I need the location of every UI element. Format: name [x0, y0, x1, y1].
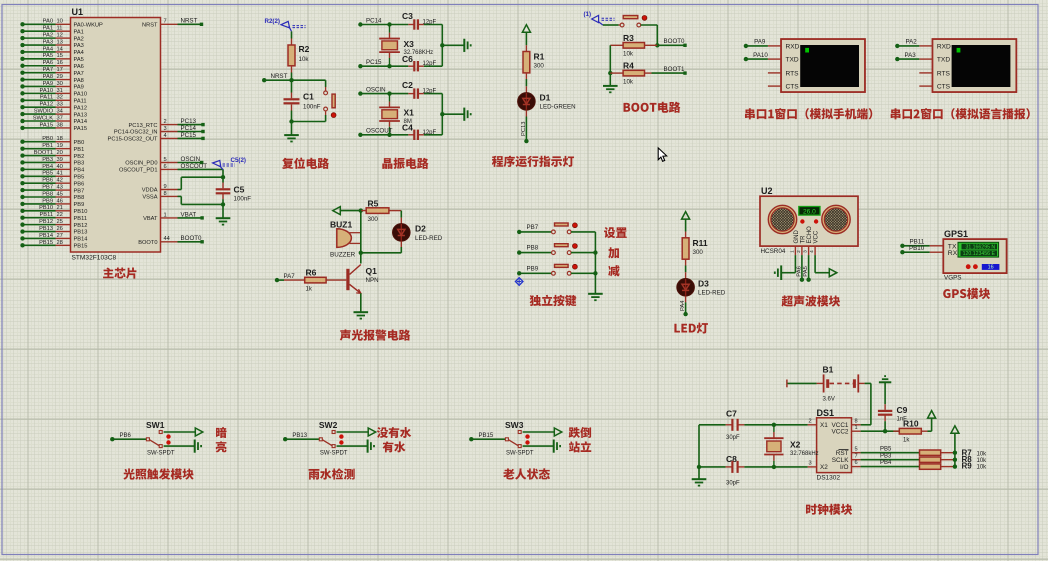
svg-text:PA2: PA2: [906, 39, 918, 46]
capacitor C4 12pF: [402, 123, 437, 141]
svg-text:VGPS: VGPS: [944, 275, 962, 282]
U2 pins: [789, 246, 815, 255]
svg-text:RXD: RXD: [786, 43, 800, 50]
virtual terminal body: [110, 39, 1030, 515]
wire button to BOOT0 node: [641, 25, 660, 48]
svg-text:16: 16: [988, 265, 994, 271]
svg-text:PB15: PB15: [74, 244, 88, 250]
svg-text:RST: RST: [836, 450, 849, 457]
label set: [604, 227, 627, 238]
svg-text:C4: C4: [402, 123, 413, 133]
svg-text:LED-GREEN: LED-GREEN: [540, 104, 576, 111]
wire R5 to D2: [400, 211, 402, 224]
svg-text:PC13: PC13: [521, 121, 527, 136]
power terminal above R11: [682, 212, 690, 238]
svg-text:PB15: PB15: [39, 240, 53, 246]
svg-text:44: 44: [164, 236, 170, 242]
left rail to ground: [608, 45, 612, 86]
svg-text:ECHO: ECHO: [807, 226, 813, 244]
svg-text:7: 7: [855, 453, 858, 459]
U1 left pin PB5 (41): [20, 171, 84, 181]
svg-text:42: 42: [57, 178, 63, 184]
svg-text:30pF: 30pF: [726, 435, 740, 441]
resistor R7 10k: [861, 446, 958, 455]
svg-text:1k: 1k: [306, 287, 313, 293]
wire PA10 to TXD: [744, 52, 769, 62]
svg-text:PB5: PB5: [880, 446, 892, 452]
svg-text:32: 32: [57, 95, 63, 101]
svg-text:7: 7: [164, 19, 167, 25]
svg-text:10k: 10k: [977, 465, 988, 471]
module leds: [800, 219, 804, 223]
svg-text:VSSA: VSSA: [142, 195, 157, 201]
pull-up rail to power: [951, 426, 959, 467]
svg-text:PA10: PA10: [74, 92, 88, 98]
U1 right pin VDDA (9): [142, 184, 178, 194]
svg-text:PB13: PB13: [292, 433, 307, 439]
svg-text:PB10: PB10: [39, 205, 53, 211]
crystal X1 8M: [379, 94, 414, 135]
svg-text:R2: R2: [299, 44, 310, 54]
svg-text:PC15-OSC32_OUT: PC15-OSC32_OUT: [108, 137, 158, 143]
svg-text:PA10: PA10: [753, 52, 768, 59]
U2 pin labels: [794, 226, 820, 244]
node OSCIN wire: [358, 86, 442, 95]
capacitor C8 30pF: [699, 454, 808, 487]
svg-text:PC14-OSC32_IN: PC14-OSC32_IN: [114, 130, 158, 136]
U1 left pin PB0 (18): [20, 136, 84, 146]
labels R7 R8 R9: [962, 448, 988, 470]
ground below C5: [216, 218, 231, 224]
svg-text:RTS: RTS: [937, 70, 951, 77]
svg-text:PB5: PB5: [74, 174, 85, 180]
svg-text:TXD: TXD: [937, 57, 950, 64]
svg-text:13: 13: [57, 39, 63, 45]
U1 left pin PA15 (38): [20, 122, 87, 132]
U1 left pin PA2 (12): [20, 33, 84, 43]
svg-text:PA13: PA13: [74, 112, 88, 118]
ground right of X1: [464, 108, 470, 121]
caption reset circuit: [282, 157, 329, 168]
svg-text:30pF: 30pF: [726, 481, 740, 487]
U1 left pin PA3 (13): [20, 39, 84, 49]
buzzer BUZ1: [330, 219, 361, 258]
svg-text:TXD: TXD: [786, 57, 799, 64]
reset push button: [324, 80, 336, 121]
push button PB9: [517, 264, 595, 275]
LED D3 LED-RED: [677, 278, 726, 296]
svg-text:RTS: RTS: [786, 70, 800, 77]
svg-text:1: 1: [789, 250, 795, 253]
wire GND to ground: [781, 255, 795, 273]
U1 left pin PA0-WKUP (10): [20, 19, 103, 29]
svg-text:R10: R10: [903, 419, 919, 429]
svg-text:PB10: PB10: [74, 209, 88, 215]
svg-text:PC13_RTC: PC13_RTC: [129, 123, 158, 129]
BOOT push button: [603, 16, 647, 27]
svg-text:PA5: PA5: [43, 53, 53, 59]
resistor R10 1k: [893, 419, 931, 444]
U1 left pin PA13 (34): [20, 109, 87, 119]
wire VCC to power: [815, 255, 837, 277]
svg-text:30: 30: [57, 81, 63, 87]
svg-text:PB6: PB6: [42, 178, 53, 184]
caption 雨水检测: [309, 468, 355, 479]
svg-text:PA14: PA14: [74, 119, 88, 125]
svg-text:SW3: SW3: [505, 420, 524, 430]
svg-text:VCC: VCC: [814, 230, 820, 243]
svg-text:10k: 10k: [299, 56, 310, 63]
wire bottom throw to ground: [523, 440, 561, 453]
svg-text:10k: 10k: [977, 451, 988, 457]
resistor R9 10k: [861, 460, 958, 469]
caption BOOT circuit: [624, 102, 681, 113]
svg-text:BUZZER: BUZZER: [330, 252, 356, 259]
svg-text:OSCOUT_PD1: OSCOUT_PD1: [119, 168, 158, 174]
svg-text:39: 39: [57, 157, 63, 163]
svg-text:R5: R5: [368, 199, 379, 209]
resistor R5 300: [361, 199, 401, 223]
svg-text:100nF: 100nF: [234, 196, 252, 203]
svg-text:PB1: PB1: [42, 143, 53, 149]
U1 left pin PA8 (29): [20, 74, 84, 84]
origin marker: [515, 278, 523, 286]
svg-text:2: 2: [809, 418, 812, 424]
push button PB7: [517, 223, 595, 234]
U1 left pin PB15 (28): [20, 240, 87, 250]
svg-text:11: 11: [57, 26, 63, 32]
wire OSCOUT to C5 node: [178, 163, 224, 189]
svg-text:NPN: NPN: [366, 277, 379, 284]
svg-text:OSCOUT: OSCOUT: [181, 163, 208, 170]
svg-text:43: 43: [57, 184, 63, 190]
svg-text:R9: R9: [962, 462, 973, 471]
U1 left pin PB13 (26): [20, 226, 87, 236]
svg-text:PA4: PA4: [43, 46, 53, 52]
svg-text:PA5: PA5: [803, 266, 809, 277]
svg-text:PA3: PA3: [43, 39, 53, 45]
LED D2 LED-RED: [393, 224, 443, 242]
wire right rail to ground: [440, 25, 464, 67]
wire TR to PA6: [796, 255, 804, 282]
svg-text:PA9: PA9: [43, 81, 53, 87]
svg-text:PC14: PC14: [366, 17, 382, 24]
U1 right pin NRST (7): [142, 18, 203, 29]
svg-text:OSCIN: OSCIN: [366, 86, 386, 93]
svg-text:6: 6: [855, 460, 858, 466]
svg-text:X1: X1: [820, 422, 828, 429]
node OSCOUT wire: [358, 128, 442, 137]
label plus: [608, 247, 619, 258]
svg-text:BOOT1: BOOT1: [34, 150, 53, 156]
svg-text:STM32F103C8: STM32F103C8: [72, 254, 117, 261]
ground below Q1: [354, 312, 369, 318]
ground below R4 rail: [603, 86, 618, 92]
svg-text:PA15: PA15: [74, 126, 88, 132]
svg-text:X3: X3: [404, 39, 415, 49]
svg-text:300: 300: [534, 63, 545, 70]
svg-text:26: 26: [57, 226, 63, 232]
svg-text:PA2: PA2: [74, 36, 84, 42]
U1 left pin PA12 (33): [20, 102, 87, 112]
svg-text:R1: R1: [534, 52, 545, 62]
svg-text:TR: TR: [800, 235, 806, 244]
terminal label (1): [584, 11, 615, 25]
svg-text:41: 41: [57, 171, 63, 177]
U1 left pin PA9 (30): [20, 81, 84, 91]
U1 right pin OSCIN_PD0 (5): [125, 156, 203, 167]
caption LED lamp: [674, 323, 708, 334]
node PC14 wire: [358, 17, 442, 26]
svg-text:PA9: PA9: [74, 85, 84, 91]
switch SW2 SW-SPDT: [283, 420, 348, 457]
ground right of X3: [464, 39, 470, 52]
virtual terminal body: [110, 39, 1030, 515]
svg-text:PB6: PB6: [74, 181, 85, 187]
svg-text:PA15: PA15: [40, 122, 54, 128]
svg-text:(1): (1): [584, 11, 592, 18]
svg-text:38: 38: [57, 122, 63, 128]
distance display 26.0: [799, 207, 820, 216]
svg-text:3: 3: [164, 126, 167, 132]
svg-text:PB11: PB11: [40, 212, 54, 218]
svg-text:3: 3: [803, 250, 809, 253]
terminal label R2(2): [265, 18, 306, 31]
svg-text:BOOT0: BOOT0: [664, 38, 686, 45]
svg-text:PA12: PA12: [74, 105, 88, 111]
crystal X3 32.768KHz: [379, 25, 433, 67]
caption clock module: [806, 504, 852, 515]
svg-text:PB7: PB7: [74, 188, 85, 194]
svg-text:15: 15: [57, 53, 63, 59]
svg-text:C6: C6: [402, 54, 413, 64]
caption alarm circuit: [340, 329, 411, 340]
wire battery to VCC1: [859, 383, 871, 424]
svg-text:PB7: PB7: [42, 184, 53, 190]
keys common rail: [593, 232, 597, 294]
svg-text:8: 8: [855, 418, 858, 424]
chip U1 STM32F103C8: [71, 7, 161, 261]
svg-text:PA3: PA3: [74, 43, 84, 49]
svg-text:10k: 10k: [623, 51, 634, 58]
svg-text:DS1: DS1: [817, 408, 835, 418]
capacitor C2 12pF: [402, 80, 437, 99]
switch SW1 SW-SPDT: [110, 420, 175, 457]
svg-text:12: 12: [57, 33, 63, 39]
svg-text:16: 16: [57, 60, 63, 66]
svg-text:D2: D2: [415, 224, 426, 234]
svg-text:PA0: PA0: [43, 19, 53, 25]
svg-text:PB7: PB7: [527, 224, 539, 231]
ground below keys: [588, 294, 603, 300]
svg-text:37: 37: [57, 115, 63, 121]
power terminal right of R10: [928, 411, 936, 432]
capacitor C6 12pF: [402, 54, 437, 72]
svg-text:PA11: PA11: [74, 98, 87, 104]
svg-text:PB3: PB3: [74, 161, 85, 167]
svg-text:17: 17: [57, 67, 63, 73]
svg-text:PB3: PB3: [42, 157, 53, 163]
wire PB11 to TX: [900, 239, 943, 249]
svg-text:PB2: PB2: [74, 154, 85, 160]
svg-text:PB8: PB8: [42, 191, 53, 197]
svg-text:31.166295 N: 31.166295 N: [965, 245, 995, 251]
svg-text:RX: RX: [948, 250, 958, 257]
GPS leds: [966, 264, 971, 269]
svg-text:20: 20: [57, 150, 63, 156]
resistor R1 300: [523, 52, 545, 93]
svg-text:PA4: PA4: [680, 300, 686, 311]
svg-text:PB8: PB8: [527, 245, 539, 252]
resistor R11 300: [682, 238, 708, 279]
svg-text:CTS: CTS: [937, 84, 951, 91]
svg-text:R4: R4: [623, 61, 634, 71]
svg-text:120.123456 E: 120.123456 E: [963, 251, 996, 257]
svg-text:PB15: PB15: [479, 433, 494, 439]
svg-text:VCC2: VCC2: [831, 429, 848, 436]
wire PA3 to TXD: [895, 52, 919, 62]
node BOOT1 wire: [645, 66, 687, 75]
left transducer: [768, 205, 796, 233]
svg-text:PA9: PA9: [754, 39, 766, 46]
U1 left pin PA11 (32): [20, 95, 86, 105]
terminal label C5(2): [213, 157, 246, 170]
svg-text:SWDIO: SWDIO: [34, 109, 54, 115]
svg-text:X2: X2: [790, 440, 801, 450]
svg-text:PB9: PB9: [74, 202, 85, 208]
U1 left pin PB11 (22): [20, 212, 87, 222]
U1 left pin PB4 (40): [20, 164, 84, 174]
wire PA9 to RXD: [744, 39, 768, 49]
svg-text:BUZ1: BUZ1: [330, 219, 352, 229]
svg-text:OSCIN_PD0: OSCIN_PD0: [125, 161, 157, 167]
svg-text:1: 1: [855, 425, 858, 431]
svg-text:PB8: PB8: [74, 195, 85, 201]
svg-text:VDDA: VDDA: [142, 188, 158, 194]
svg-text:HCSR04: HCSR04: [761, 248, 786, 255]
svg-text:PA11: PA11: [40, 95, 53, 101]
svg-text:31: 31: [57, 88, 63, 94]
resistor R6 1k: [275, 268, 347, 293]
U1 left pin PA6 (16): [20, 60, 84, 70]
svg-text:14: 14: [57, 46, 63, 52]
svg-text:34: 34: [57, 109, 63, 115]
svg-text:10k: 10k: [623, 78, 634, 85]
svg-text:PB12: PB12: [39, 219, 53, 225]
U1 right pin BOOT0 (44): [138, 235, 204, 246]
svg-text:PA5: PA5: [74, 57, 84, 63]
wire PA2 to RXD: [895, 39, 919, 49]
capacitor C3 12pF: [402, 11, 437, 30]
svg-text:PA0-WKUP: PA0-WKUP: [74, 23, 103, 29]
svg-text:PB4: PB4: [42, 164, 53, 170]
U1 right pin VBAT (1): [143, 211, 204, 222]
wire VDDA branch: [178, 175, 226, 190]
U1 right pin VSSA (8): [142, 191, 177, 201]
svg-text:C7: C7: [726, 409, 737, 419]
svg-text:PB6: PB6: [120, 433, 132, 439]
svg-text:12pF: 12pF: [423, 130, 437, 136]
svg-text:8: 8: [164, 191, 167, 197]
wire bottom throw to ground: [164, 440, 202, 453]
label 有水: [383, 441, 406, 452]
svg-text:SW-SPDT: SW-SPDT: [320, 451, 348, 457]
label 亮: [216, 441, 227, 452]
svg-text:46: 46: [57, 198, 63, 204]
svg-text:12pF: 12pF: [423, 20, 437, 26]
label 站立: [569, 441, 591, 452]
svg-text:NRST: NRST: [142, 23, 158, 29]
wire buzzer rail: [360, 211, 362, 253]
svg-text:BOOT0: BOOT0: [181, 235, 203, 242]
wire VSSA branch: [178, 196, 226, 206]
svg-text:LED-RED: LED-RED: [415, 235, 443, 242]
svg-text:R2(2): R2(2): [265, 18, 280, 25]
battery B1 3.6V: [787, 365, 858, 403]
transistor Q1 NPN: [346, 253, 378, 312]
svg-text:PC15: PC15: [366, 59, 382, 66]
svg-text:RXD: RXD: [937, 43, 951, 50]
svg-text:NRST: NRST: [181, 18, 198, 25]
caption keys: [530, 295, 577, 307]
svg-text:25: 25: [57, 219, 63, 225]
node NRST wire: [262, 73, 326, 82]
svg-text:2: 2: [796, 250, 802, 253]
svg-text:PB14: PB14: [39, 233, 53, 239]
svg-text:PA8: PA8: [74, 78, 84, 84]
svg-text:6: 6: [164, 164, 167, 170]
svg-text:PB5: PB5: [42, 171, 53, 177]
wire top throw to power: [523, 428, 562, 436]
svg-text:4: 4: [809, 250, 815, 253]
svg-text:PB14: PB14: [74, 237, 88, 243]
power terminal above R1: [522, 25, 530, 52]
svg-text:10k: 10k: [977, 458, 988, 464]
svg-text:PA2: PA2: [43, 33, 53, 39]
U1 left pin PB9 (46): [20, 198, 84, 208]
capacitor C9 1nF: [878, 376, 908, 431]
svg-text:10: 10: [57, 19, 63, 25]
svg-text:PA1: PA1: [74, 29, 84, 35]
caption GPS module: [943, 288, 990, 299]
svg-text:GND: GND: [794, 230, 800, 244]
terminal pins: [919, 46, 932, 86]
U1 left pin PB6 (42): [20, 178, 84, 188]
svg-text:PA1: PA1: [43, 26, 53, 32]
wire top throw to power: [164, 428, 203, 436]
svg-text:PA8: PA8: [43, 74, 53, 80]
U1 left pin PB10 (21): [20, 205, 87, 215]
svg-text:300: 300: [693, 249, 704, 256]
svg-text:PB4: PB4: [74, 168, 85, 174]
caption 老人状态: [503, 468, 550, 479]
svg-text:5: 5: [164, 157, 167, 163]
svg-text:U1: U1: [72, 7, 84, 17]
svg-text:40: 40: [57, 164, 63, 170]
U1 left pin PB3 (39): [20, 157, 84, 167]
U1 right pin PC15-OSC32_OUT (4): [108, 132, 205, 143]
svg-text:DS1302: DS1302: [817, 475, 841, 482]
crystal X2 32.768kHz: [764, 425, 818, 467]
svg-text:PB11: PB11: [74, 216, 88, 222]
module U2 HCSR04 body: [760, 186, 858, 255]
svg-text:SW-SPDT: SW-SPDT: [147, 451, 175, 457]
label minus: [608, 265, 619, 276]
svg-text:5: 5: [855, 446, 858, 452]
svg-text:26.0: 26.0: [803, 208, 816, 215]
svg-text:D1: D1: [540, 93, 551, 103]
GPS display: [958, 242, 999, 257]
